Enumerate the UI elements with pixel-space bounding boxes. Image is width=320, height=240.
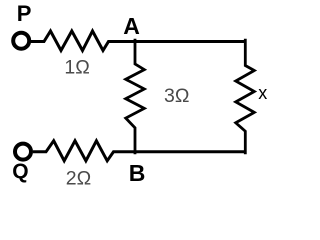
svg-text:x: x <box>258 83 267 103</box>
svg-text:2Ω: 2Ω <box>66 168 91 190</box>
svg-text:1Ω: 1Ω <box>64 57 89 79</box>
svg-text:Q: Q <box>12 160 28 183</box>
svg-text:B: B <box>129 160 146 186</box>
svg-text:3Ω: 3Ω <box>164 85 189 107</box>
svg-text:P: P <box>17 1 32 26</box>
svg-text:A: A <box>123 13 140 39</box>
